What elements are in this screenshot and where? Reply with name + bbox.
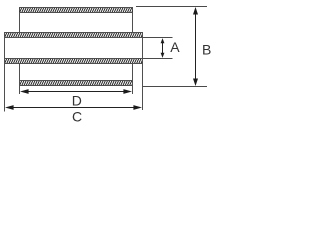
- svg-text:C: C: [72, 108, 82, 124]
- svg-text:A: A: [170, 39, 180, 55]
- svg-text:D: D: [72, 92, 82, 108]
- svg-text:B: B: [202, 41, 211, 57]
